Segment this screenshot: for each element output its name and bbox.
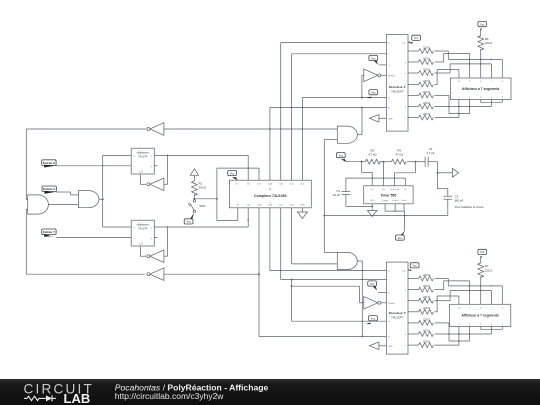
resistor R1 330 Ohm [191,181,206,195]
wire rail to 555 Threshold pin [394,162,415,186]
flag Vcc at 555 rail [336,153,346,163]
svg-text:Q: Q [150,166,152,168]
wire D rail vertical [102,155,131,227]
svg-text:Décodeur X: Décodeur X [389,85,406,89]
svg-text:VCC: VCC [402,270,407,272]
flip-flop U2 Balance 74LS74 (upper) [131,148,154,174]
input flag Entree Y [42,229,132,238]
flag Vcc at top decoder D [367,90,378,99]
wire top feedback line to AND gate A3 [164,128,337,130]
ground at 555 [367,209,377,217]
wire CLR rail to counter CLR bottom [217,208,249,221]
flag Vcc at R7 [478,249,487,259]
svg-text:Compteur 74LS393: Compteur 74LS393 [254,194,287,198]
wire A2 output to D rail [99,198,104,200]
svg-text:BI/RBO: BI/RBO [388,303,395,305]
capacitor C2 4.7 uF [425,147,437,167]
wire node to counter CLR rail [194,198,217,200]
svg-text:4.7 kΩ: 4.7 kΩ [368,152,376,156]
wire brow1 to display pin 6 [435,279,503,305]
resistor 220 Ohm (bottom bank row 6) [408,328,433,336]
counter U8 Compteur 74LS393 [229,180,311,208]
flag Vcc at 555 output net [396,231,405,240]
flag Vcc at R6 [478,22,487,32]
display DS2 Afficheur a 7 segments (bottom) [450,304,511,326]
ground at counter GND [297,208,307,219]
display DS1 Afficheur a 7 segments (top) [450,78,511,100]
svg-text:CLR: CLR [139,244,144,246]
wire bus 1QB down to pin B row [270,208,387,272]
svg-text:SW1: SW1 [199,204,206,208]
inverter U3 (under FF1) [140,155,167,190]
svg-text:1QD: 1QD [289,205,294,207]
decoder U10 Decodeur X 74LS247 [386,35,408,132]
flag Vcc at counter [228,170,238,180]
wire bus 1QC down to pin C row [281,208,387,281]
wire brow6 to display pin 4 [435,327,492,335]
wire FF1 Q output to counter clock [154,155,248,166]
flip-flop U4 Balance 74LS74 (lower) [131,220,154,246]
flag Vcc at bottom decoder LT [368,281,387,293]
svg-text:47 kΩ: 47 kΩ [396,152,403,156]
svg-text:GND: GND [300,205,305,207]
svg-text:1QB: 1QB [268,205,273,207]
svg-text:“74LS247”: “74LS247” [390,316,404,320]
svg-text:Entrée A: Entrée A [43,187,56,191]
svg-text:Afficheur à 7 segments: Afficheur à 7 segments [462,314,499,318]
resistor 220 Ohm (bottom bank row 3) [408,295,433,303]
svg-text:220 Ω: 220 Ω [423,340,430,344]
svg-text:Vcc: Vcc [370,189,373,191]
ground left at top decoder GND [369,115,386,123]
capacitor C3 680 uF [443,194,483,215]
resistor 220 Ohm (top bank row 7) [408,112,435,120]
switch SW1 [188,200,206,213]
wire output net to flag [404,216,406,232]
wire R7 down to display pin 8 [480,277,482,305]
wire bus 2QC up to pin C row [292,54,387,180]
supply arrow above R1 [190,169,198,181]
wire rail to 555 Vcc pin [362,162,373,186]
svg-text:R6: R6 [485,37,489,41]
resistor 220 Ohm (top bank row 3) [408,67,435,75]
svg-text:B: B [269,187,271,191]
svg-text:220 Ω: 220 Ω [423,45,430,49]
CircuitLab logo [24,381,95,405]
wire 1QC branch to pin D row [291,280,387,322]
svg-text:Threshold: Threshold [390,188,400,191]
resistor 220 Ohm (top bank row 1) [408,45,435,53]
resistor 220 Ohm (bottom bank row 7) [408,340,433,348]
wire output net down to AND A4 in1 [324,216,337,253]
svg-text:220 Ω: 220 Ω [485,269,493,273]
svg-text:1QA: 1QA [257,204,262,207]
wire R1 to node [193,195,195,200]
svg-text:2QB: 2QB [279,184,284,186]
wire left rail upper (inverter out to AND1 in1) [26,129,27,200]
supply arrow right of C2 [452,168,458,177]
svg-text:«Balance»: «Balance» [136,223,149,227]
AND gate A2 [78,191,99,208]
resistor 220 Ohm (top bank row 6) [408,101,435,109]
footer title text [115,382,269,401]
svg-text:220 Ω: 220 Ω [423,79,430,83]
svg-text:VCC: VCC [402,43,407,45]
svg-text:220 Ω: 220 Ω [423,67,430,71]
wire 555 supply rail [346,161,425,163]
wire 555 Trigger-Output-Reset tie [385,204,405,217]
svg-text:Timer 555: Timer 555 [381,193,397,197]
resistor R2 4.7 kOhm [366,148,381,164]
svg-text:Reset: Reset [401,199,407,202]
wire FF2 Q output to counter clock [154,226,248,237]
wire brow2 to display pin 9 [435,281,470,304]
resistor 220 Ohm (bottom bank row 1) [408,273,433,281]
wire FF1 Q vertical to counter pin 2A [247,155,249,180]
flag Vcc at top decoder LT [369,55,387,65]
svg-text:Q: Q [150,238,152,240]
svg-text:GND: GND [388,346,393,348]
wire bus 2QB up to pin B row [281,43,387,181]
decoder U13 Decodeur Y 74LS247 [386,262,408,354]
inverter U6 (top feedback) [26,123,164,136]
ground left at bottom decoder GND [369,342,386,350]
svg-text:220 Ω: 220 Ω [485,41,493,45]
svg-text:220 Ω: 220 Ω [423,112,430,116]
resistor 220 Ohm (top bank row 2) [408,56,435,64]
wire branch to bottom inverter input [292,286,364,303]
wire C1 bottom to GND [346,204,373,209]
wire 555 output net horizontal [323,215,447,217]
wire display pins 3-5 tie [481,100,503,103]
svg-text:220 Ω: 220 Ω [423,317,430,321]
svg-text:74LS74: 74LS74 [138,226,148,230]
wire brow4 to display pin 10 [435,296,459,312]
svg-text:Trigger: Trigger [382,199,389,202]
flag Vcc at top decoder VCC pin [408,35,421,43]
svg-text:Décodeur Y: Décodeur Y [389,311,406,315]
svg-text:GND: GND [388,118,393,120]
svg-text:Pour stabiliser le circuit: Pour stabiliser le circuit [455,205,484,209]
svg-text:1QC: 1QC [279,205,284,207]
timer U11 555 [364,186,413,204]
svg-text:220 Ω: 220 Ω [423,306,430,310]
input flag Entree A [42,186,78,195]
wire bus 1QD down to AND A4 in2 [292,208,338,264]
svg-text:«Balance»: «Balance» [136,151,149,155]
wire brow5 to display pin 2 [435,323,470,342]
wire bus 1QA down to pin A row [259,208,386,338]
svg-text:Q: Q [150,227,152,229]
svg-text:Entrée X: Entrée X [43,161,55,165]
svg-text:220 Ω: 220 Ω [423,56,430,60]
footer bar [0,379,540,405]
svg-text:680 μF: 680 μF [455,199,464,203]
svg-text:c: c [405,96,406,98]
wire row5 to display pin 2 [435,96,470,115]
wire brow3 to display pin 7 [435,290,492,305]
AND gate A4 (bottom) [337,252,357,269]
svg-text:Q: Q [150,155,152,157]
wire row6 to display pin 4 [435,100,492,108]
svg-text:220 Ω: 220 Ω [423,273,430,277]
svg-text:4.7 μF: 4.7 μF [427,151,435,155]
svg-text:R7: R7 [485,264,489,268]
wire rail to 555 Dis pin [383,162,385,186]
wire C1 top to 555 CV pin [346,177,405,191]
inverter U12 into BI/RBO (bottom decoder) [364,297,387,310]
wire CLR rail vertical [216,168,218,220]
flag Vcc at bottom decoder VCC pin [408,263,419,271]
svg-text:“74LS247”: “74LS247” [390,90,404,94]
svg-text:Vcc: Vcc [235,184,238,186]
svg-text:Output: Output [392,199,399,202]
flag Vcc at bottom decoder D [366,316,377,325]
wire row7 to display pin 1 [435,100,459,118]
svg-text:74LS74: 74LS74 [138,154,148,158]
wire A4 output down to pin A row [357,261,362,336]
svg-text:220 Ω: 220 Ω [423,284,430,288]
svg-text:Dis: Dis [382,189,385,191]
wire brow7 to display pin 1 [435,327,459,346]
wire R6 down to display pin 8 [480,49,482,78]
svg-text:2QC: 2QC [289,184,294,186]
AND gate A3 (top) [337,126,357,143]
flag Vcc at SW1 [184,213,194,225]
inverter U7 (bottom feedback) [147,268,164,281]
svg-text:220 Ω: 220 Ω [423,101,430,105]
wire row2 to display pin 9 [435,53,470,78]
wire row4 to display pin 10 [435,70,459,85]
wire row1 to display pin 6 [435,51,503,78]
resistor R3 47 kOhm [391,148,406,164]
svg-text:Afficheur à 7 segments: Afficheur à 7 segments [462,87,499,91]
resistor 220 Ohm (top bank row 4) [408,79,435,87]
wire A3 in2 from 555 output net [324,140,337,216]
wire row3 to display pin 7 [435,63,492,78]
wire A1 output to A2 in2 [48,204,78,206]
AND gate A1 (far left) [28,195,49,214]
capacitor C1 10 nF [333,189,350,207]
svg-text:BI/RBO: BI/RBO [388,75,395,77]
wire C2 to arrow node [437,162,453,174]
wire left rail lower (AND1 in2 to bottom inverter out) [26,209,144,274]
svg-text:220 Ω: 220 Ω [423,295,430,299]
wire bus 2QD up to pin D row [302,97,386,181]
input flag Entree X [42,160,132,168]
svg-text:c: c [405,323,406,325]
inverter U5 (under FF2) [140,227,167,263]
svg-text:2QD: 2QD [300,184,305,186]
resistor 220 Ohm (bottom bank row 2) [408,284,433,292]
svg-text:CLR: CLR [257,184,262,186]
resistor 220 Ohm (top bank row 5) [408,90,435,98]
svg-text:2QA: 2QA [268,183,273,186]
wire FF2 Q vertical to counter pin 1A [247,208,249,227]
wire CLR rail to counter CLR top [217,167,259,180]
wire bus 2QA up to pin A row [270,107,387,181]
wire A3 output up to pin A row [357,108,362,135]
resistor R6 220 Ohm [478,31,493,51]
svg-text:10 nF: 10 nF [333,193,340,197]
svg-text:LAB: LAB [64,391,91,405]
svg-text:220 Ω: 220 Ω [423,90,430,94]
inverter U9 into BI/RBO (top decoder) [362,69,387,98]
wire bottom feedback line to QA column [164,273,260,275]
wire bottom display pins 3-5 tie [481,327,503,330]
svg-text:http://circuitlab.com/c3yhy2w: http://circuitlab.com/c3yhy2w [115,391,225,401]
resistor R7 220 Ohm [478,258,493,277]
svg-text:330 Ω: 330 Ω [199,186,207,190]
wire node down to C3 [438,173,448,196]
svg-text:GND: GND [370,200,375,202]
svg-text:CLR: CLR [139,172,144,174]
resistor 220 Ohm (bottom bank row 5) [408,317,433,325]
resistor 220 Ohm (bottom bank row 4) [408,306,433,314]
svg-text:220 Ω: 220 Ω [423,328,430,332]
svg-text:Entrée Y: Entrée Y [43,230,55,234]
